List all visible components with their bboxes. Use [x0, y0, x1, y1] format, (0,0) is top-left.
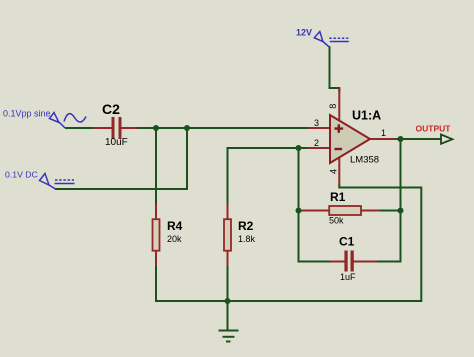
- svg-text:1.8k: 1.8k: [238, 234, 256, 244]
- wire: C1 row left segment: [298, 261, 332, 263]
- input terminal: 0.1Vpp sine: [50, 113, 87, 129]
- junction node B: [184, 125, 190, 131]
- svg-text:0.1Vpp sine: 0.1Vpp sine: [3, 109, 51, 119]
- svg-text:OUTPUT: OUTPUT: [416, 124, 452, 134]
- svg-text:U1:A: U1:A: [352, 109, 381, 123]
- svg-text:C1: C1: [339, 235, 355, 249]
- wire: sine terminal to C2: [65, 127, 93, 129]
- svg-text:10uF: 10uF: [105, 137, 128, 148]
- wire: op-amp pin 4 down and right to ground rail: [339, 184, 421, 302]
- junction ground rail: [225, 298, 231, 304]
- wire: R2 top up and right to op-amp pin 2: [228, 148, 309, 205]
- wire: 12V terminal down to op-amp pin 8: [330, 46, 340, 92]
- capacitor C2: [93, 117, 137, 139]
- wire: node A down to R4 top: [155, 128, 157, 205]
- wire: C1 row right segment: [376, 261, 402, 263]
- svg-text:8: 8: [328, 104, 338, 109]
- wire: node B down then left to DC terminal: [55, 128, 187, 189]
- ground: [219, 301, 239, 342]
- input terminal: 0.1V DC: [40, 174, 75, 190]
- output terminal OUTPUT: [441, 135, 452, 144]
- op-amp U1: [307, 88, 396, 185]
- wire: R1 right lead to right vertical: [379, 210, 401, 212]
- svg-text:1uF: 1uF: [340, 272, 356, 282]
- svg-text:0.1V DC: 0.1V DC: [5, 170, 38, 180]
- junction output node: [398, 136, 404, 142]
- wire: op-amp output to OUTPUT terminal: [395, 138, 442, 140]
- junction R1 left: [296, 208, 302, 214]
- wire: R4 bottom to ground rail: [155, 266, 157, 302]
- svg-text:R2: R2: [238, 219, 254, 233]
- resistor R4: [153, 204, 160, 266]
- wire: ground rail: [155, 300, 422, 302]
- junction pin 2 / feedback node: [296, 145, 302, 151]
- svg-text:4: 4: [329, 169, 339, 174]
- svg-text:50k: 50k: [329, 216, 344, 226]
- svg-text:12V: 12V: [296, 28, 312, 38]
- resistor R1: [299, 206, 380, 215]
- svg-text:3: 3: [314, 118, 319, 128]
- wire: feedback left vertical from pin 2 node to C1 row: [298, 148, 300, 262]
- capacitor C1: [330, 251, 377, 272]
- svg-text:LM358: LM358: [350, 155, 379, 166]
- wire: feedback right vertical from output node to C1 row: [400, 139, 402, 263]
- svg-text:20k: 20k: [167, 234, 182, 244]
- junction R1 right: [398, 208, 404, 214]
- svg-text:R1: R1: [330, 190, 346, 204]
- wire: C2 to op-amp pin 3: [136, 127, 308, 129]
- power terminal: 12V: [314, 32, 349, 48]
- junction node A: [153, 125, 159, 131]
- wire: R2 bottom to ground rail: [227, 266, 229, 302]
- svg-text:C2: C2: [102, 101, 120, 117]
- resistor R2: [224, 204, 231, 266]
- svg-text:R4: R4: [167, 219, 183, 233]
- svg-text:1: 1: [381, 128, 386, 138]
- svg-text:2: 2: [314, 138, 319, 148]
